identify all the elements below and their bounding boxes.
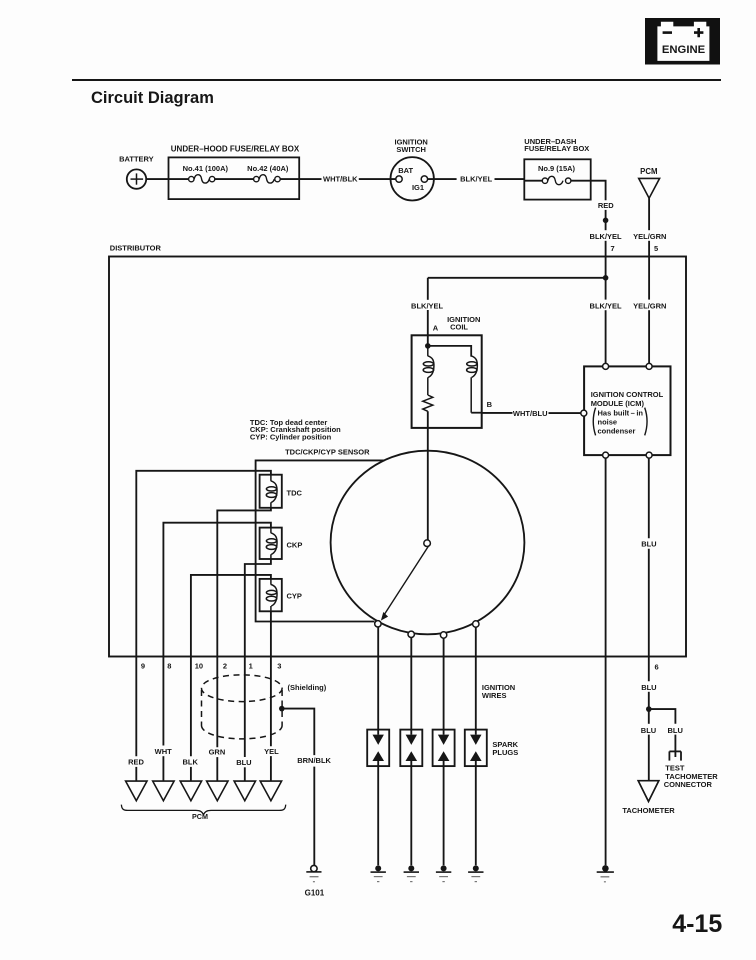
- rotor contact terminal 2: [408, 631, 414, 637]
- ground plug3: [436, 865, 451, 881]
- svg-text:SWITCH: SWITCH: [396, 145, 426, 154]
- ICM terminal pin5 top: [646, 363, 652, 369]
- svg-text:PCM: PCM: [192, 812, 208, 821]
- under-hood fuse/relay box: [169, 144, 300, 199]
- spark plug 3: [433, 730, 455, 767]
- svg-text:IG1: IG1: [412, 183, 424, 192]
- tachometer connector triangle: [638, 781, 659, 802]
- wire elbow to BLK/YEL vertical: [591, 181, 606, 201]
- ICM text: [591, 390, 664, 435]
- ICM terminal pin7 top: [603, 363, 609, 369]
- svg-text:4-15: 4-15: [672, 910, 722, 938]
- wire CYP top to pin 10: [191, 575, 271, 781]
- wire TDC bottom to pin 2: [217, 508, 271, 781]
- wire CYP bottom to pin 3: [270, 611, 272, 781]
- svg-text:WHT: WHT: [155, 747, 172, 756]
- svg-text:UNDER–HOOD FUSE/RELAY BOX: UNDER–HOOD FUSE/RELAY BOX: [171, 144, 300, 153]
- svg-text:WHT/BLU: WHT/BLU: [513, 409, 548, 418]
- svg-text:CONNECTOR: CONNECTOR: [664, 780, 713, 789]
- rotor contact terminal 1: [375, 621, 381, 627]
- svg-text:BLU: BLU: [667, 726, 682, 735]
- wire coil top link: [428, 346, 471, 357]
- ignition coil box: [412, 335, 482, 428]
- svg-text:No.41 (100A): No.41 (100A): [183, 164, 229, 173]
- svg-text:PCM: PCM: [640, 167, 657, 176]
- wire branch to test connector: [649, 709, 676, 757]
- svg-text:FUSE/RELAY BOX: FUSE/RELAY BOX: [524, 144, 589, 153]
- svg-text:BLK/YEL: BLK/YEL: [460, 175, 493, 184]
- header rule: [72, 79, 721, 81]
- svg-text:BATTERY: BATTERY: [119, 155, 154, 164]
- PCM connector triangle pin9: [126, 781, 147, 801]
- svg-text:TDC: TDC: [287, 489, 303, 498]
- svg-text:B: B: [487, 400, 493, 409]
- svg-text:RED: RED: [128, 758, 144, 767]
- spark plug 2: [400, 730, 422, 767]
- fuse No.42 (40A): [247, 164, 299, 183]
- svg-text:BLU: BLU: [641, 683, 656, 692]
- svg-text:TDC/CKP/CYP SENSOR: TDC/CKP/CYP SENSOR: [285, 448, 370, 457]
- wire plug1 to ground: [377, 761, 379, 865]
- spark plug 4: [465, 730, 487, 767]
- ignition control module ICM box: [584, 366, 670, 455]
- under-dash fuse/relay box: [524, 137, 590, 200]
- svg-text:COIL: COIL: [450, 323, 468, 332]
- svg-text:3: 3: [277, 662, 281, 671]
- wire YEL/GRN from PCM: [648, 198, 650, 363]
- svg-text:DISTRIBUTOR: DISTRIBUTOR: [110, 244, 162, 253]
- switch terminal BAT: [396, 176, 402, 182]
- svg-text:CYP: Cylinder position: CYP: Cylinder position: [250, 432, 332, 441]
- wire plug3 to ground: [443, 761, 445, 865]
- wire BLU from ICM: [648, 458, 650, 709]
- ground plug2: [404, 865, 419, 881]
- ignition wire 1: [377, 627, 379, 735]
- PCM connector triangle pin8: [153, 781, 174, 801]
- ignition switch: [391, 138, 434, 201]
- svg-text:No.42 (40A): No.42 (40A): [247, 164, 289, 173]
- spark plugs label: [492, 740, 518, 757]
- shielding dashed cylinder: [202, 675, 283, 739]
- wire TDC top to pin 9: [136, 471, 271, 781]
- distributor rotor circle: [331, 451, 525, 635]
- wire BLK/YEL switch to under-dash: [428, 175, 525, 184]
- CKP sensor: [260, 528, 303, 559]
- svg-text:CYP: CYP: [287, 592, 302, 601]
- wire CKP top to pin 8: [163, 523, 271, 781]
- shield ground node: [279, 706, 285, 712]
- wire WHT/BLU to ICM: [482, 409, 581, 418]
- TDC sensor: [260, 475, 303, 508]
- switch terminal IG1: [421, 176, 427, 182]
- svg-text:RED: RED: [598, 201, 614, 210]
- svg-text:8: 8: [167, 662, 171, 671]
- ICM terminal B left: [581, 410, 587, 416]
- wire to tachometer: [648, 709, 650, 781]
- svg-text:9: 9: [141, 662, 145, 671]
- svg-text:MODULE (ICM): MODULE (ICM): [591, 399, 645, 408]
- wire BLK/YEL to ICM: [605, 241, 607, 364]
- wire CKP bottom to pin 1: [245, 559, 271, 781]
- wire junction to ignition coil: [428, 277, 606, 279]
- svg-text:G101: G101: [305, 888, 325, 897]
- svg-text:YEL/GRN: YEL/GRN: [633, 232, 666, 241]
- wire coil to rotor: [427, 411, 429, 540]
- svg-text:WIRES: WIRES: [482, 691, 507, 700]
- svg-text:Has built – in: Has built – in: [598, 409, 644, 418]
- PCM connector triangle pin3: [260, 781, 281, 801]
- svg-text:A: A: [433, 323, 439, 332]
- svg-text:noise: noise: [598, 418, 618, 427]
- ground plug4: [468, 865, 483, 881]
- wire BLK/YEL to coil: [427, 278, 429, 346]
- coil primary winding: [423, 346, 434, 395]
- PCM connector triangle: [639, 178, 660, 198]
- svg-text:ENGINE: ENGINE: [662, 44, 706, 56]
- svg-text:(Shielding): (Shielding): [288, 683, 327, 692]
- PCM connector triangle pin1: [234, 781, 255, 801]
- ignition wire 4: [475, 627, 477, 734]
- wire RED segment: [605, 210, 607, 230]
- distributor box: [109, 257, 686, 657]
- svg-text:CKP: CKP: [287, 541, 303, 550]
- ICM terminal bottom left: [603, 452, 609, 458]
- splice dot RED/BLK-YEL: [603, 218, 609, 224]
- CYP sensor: [260, 579, 302, 611]
- resistor (primary): [423, 395, 433, 411]
- coil secondary winding: [467, 356, 478, 413]
- svg-text:BAT: BAT: [398, 166, 413, 175]
- ignition wires label: [482, 683, 515, 700]
- svg-text:No.9 (15A): No.9 (15A): [538, 164, 576, 173]
- svg-text:BLK/YEL: BLK/YEL: [590, 302, 623, 311]
- PCM connector triangle pin2: [207, 781, 228, 801]
- ground G101: [305, 865, 325, 897]
- fuse No.41 (100A): [169, 164, 254, 183]
- svg-text:BLU: BLU: [641, 540, 656, 549]
- wire WHT/BLK: [299, 175, 396, 184]
- svg-text:WHT/BLK: WHT/BLK: [323, 175, 358, 184]
- wire battery to under-hood box: [146, 178, 168, 180]
- engine badge: [645, 18, 720, 65]
- svg-text:7: 7: [611, 244, 615, 253]
- svg-text:6: 6: [655, 662, 659, 671]
- svg-text:BLU: BLU: [236, 758, 251, 767]
- svg-text:YEL/GRN: YEL/GRN: [633, 302, 666, 311]
- node junction to coil: [603, 275, 609, 281]
- svg-text:BRN/BLK: BRN/BLK: [297, 756, 331, 765]
- svg-text:BLK/YEL: BLK/YEL: [411, 302, 444, 311]
- wire plug4 to ground: [475, 761, 477, 865]
- svg-text:Circuit Diagram: Circuit Diagram: [91, 89, 214, 107]
- PCM brace: [121, 805, 285, 815]
- wire ICM ground BLK/YEL: [605, 458, 607, 865]
- battery terminal: [127, 169, 146, 188]
- rotor center node: [424, 540, 431, 547]
- svg-text:BLK/YEL: BLK/YEL: [590, 232, 623, 241]
- sensor box outline: [256, 460, 385, 621]
- ICM terminal bottom right: [646, 452, 652, 458]
- svg-text:condenser: condenser: [598, 427, 636, 436]
- svg-text:GRN: GRN: [209, 748, 226, 757]
- svg-text:YEL: YEL: [264, 747, 279, 756]
- test tachometer connector symbol: [669, 751, 681, 760]
- spark plug 1: [367, 730, 389, 767]
- wire plug2 to ground: [410, 761, 412, 865]
- wire BRN/BLK to G101: [282, 709, 315, 866]
- svg-text:BLK: BLK: [182, 758, 198, 767]
- svg-text:2: 2: [223, 662, 227, 671]
- node BLU branch: [646, 706, 652, 712]
- svg-text:TACHOMETER: TACHOMETER: [622, 806, 675, 815]
- rotor contact terminal 4: [473, 621, 479, 627]
- fuse No.9 (15A): [524, 164, 590, 185]
- rotor arm: [381, 546, 428, 620]
- test tachometer connector label: [664, 764, 719, 790]
- PCM connector triangle pin10: [180, 781, 201, 801]
- ignition coil label: [447, 315, 480, 332]
- svg-text:1: 1: [249, 662, 253, 671]
- ignition wire 2: [410, 638, 412, 735]
- wire secondary to B: [471, 412, 482, 414]
- ground plug1: [371, 865, 386, 881]
- svg-text:BLU: BLU: [641, 726, 656, 735]
- legend TDC CKP CYP: [250, 418, 341, 441]
- ignition wire 3: [443, 638, 445, 734]
- node A junction dot: [425, 343, 431, 349]
- ICM parentheses: [593, 408, 647, 436]
- rotor contact terminal 3: [440, 632, 446, 638]
- svg-text:PLUGS: PLUGS: [492, 748, 518, 757]
- svg-text:10: 10: [195, 662, 203, 671]
- svg-text:5: 5: [654, 244, 658, 253]
- ground ICM: [597, 865, 614, 882]
